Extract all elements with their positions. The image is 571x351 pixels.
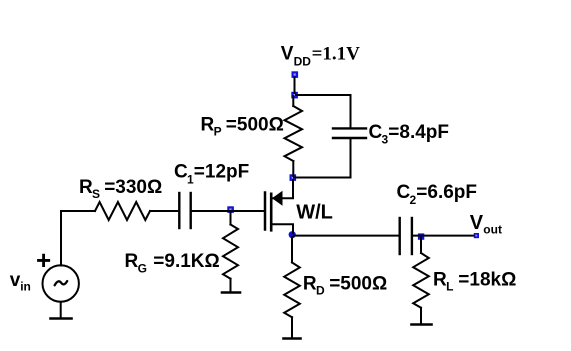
svg-text:R: R [303, 274, 317, 295]
svg-text:C: C [369, 122, 383, 143]
svg-text:P: P [214, 124, 222, 138]
svg-text:in: in [20, 279, 31, 293]
transistor M1 drain wire [272, 180, 293, 198]
svg-text:C: C [397, 182, 411, 203]
label RL value [433, 270, 516, 294]
resistor RD [284, 237, 300, 338]
svg-text:out: out [483, 223, 502, 237]
svg-text:+: + [36, 245, 51, 275]
wire drain node to C3 bottom [294, 177, 351, 179]
capacitor C2 [400, 218, 412, 254]
capacitor C1 [179, 193, 190, 228]
svg-text:V: V [470, 212, 484, 234]
resistor RG [223, 212, 238, 292]
label RS value [79, 177, 162, 201]
transistor M1 gate bar [264, 193, 267, 230]
node gate [227, 206, 234, 213]
wire source node to C2 [294, 235, 399, 237]
label vin [10, 270, 31, 294]
resistor RP [285, 96, 303, 176]
svg-text:S: S [92, 187, 100, 201]
transistor M1 source wire [272, 224, 293, 233]
svg-text:R: R [201, 114, 215, 135]
node after C2 [418, 233, 424, 239]
label W/L [296, 202, 333, 224]
wire VDD stub [294, 78, 296, 94]
wire C3 bottom to drain wire [350, 139, 352, 178]
label RG value [125, 251, 220, 275]
wire top node to C3 top [296, 95, 351, 128]
wire C1 to gate [192, 210, 264, 212]
svg-text:=500Ω: =500Ω [226, 114, 284, 135]
svg-text:G: G [138, 262, 147, 276]
node drain [290, 174, 297, 181]
svg-text:=1.1V: =1.1V [312, 44, 361, 65]
svg-text:=500Ω: =500Ω [329, 274, 387, 295]
voltage source vin [43, 265, 79, 301]
svg-text:C: C [174, 162, 188, 183]
svg-text:=9.1KΩ: =9.1KΩ [153, 251, 219, 272]
ground RD [284, 337, 301, 340]
label tilde of source [55, 281, 68, 285]
wire vin to ground [60, 302, 62, 318]
svg-text:R: R [125, 251, 139, 272]
svg-text:=18kΩ: =18kΩ [458, 270, 516, 291]
svg-text:W/L: W/L [296, 202, 333, 224]
label C2 value [397, 182, 478, 207]
wire C2 to Vout [413, 235, 474, 237]
node VDD lower [291, 92, 298, 99]
svg-text:V: V [281, 44, 294, 65]
resistor RL [413, 238, 429, 324]
label C3 value [369, 122, 450, 147]
svg-text:=8.4pF: =8.4pF [388, 122, 449, 143]
transistor M1 channel bar [270, 194, 273, 231]
svg-text:R: R [433, 270, 447, 291]
svg-text:=330Ω: =330Ω [104, 177, 162, 198]
wire RS to C1 [150, 210, 178, 212]
ground RL [412, 323, 432, 326]
label Vout [470, 212, 502, 237]
node source junction [289, 231, 296, 238]
label RP value [201, 114, 284, 138]
svg-text:DD: DD [294, 54, 312, 68]
node Vout terminal [474, 233, 479, 238]
svg-text:=6.6pF: =6.6pF [416, 182, 477, 203]
svg-text:R: R [79, 177, 93, 198]
capacitor C3 [333, 128, 366, 138]
svg-text:v: v [10, 270, 21, 291]
node VDD terminal [292, 71, 299, 78]
ground vin [51, 317, 72, 320]
ground RG [222, 291, 240, 294]
svg-text:L: L [446, 280, 453, 294]
svg-text:=12pF: =12pF [194, 162, 249, 183]
svg-text:D: D [316, 284, 325, 298]
label VDD=1.1V [281, 44, 360, 69]
transistor M1 arrow [272, 191, 283, 206]
resistor RS [95, 202, 150, 220]
label C1 value [174, 162, 249, 187]
label RD value [303, 274, 387, 298]
wire vin to RS [61, 211, 95, 266]
